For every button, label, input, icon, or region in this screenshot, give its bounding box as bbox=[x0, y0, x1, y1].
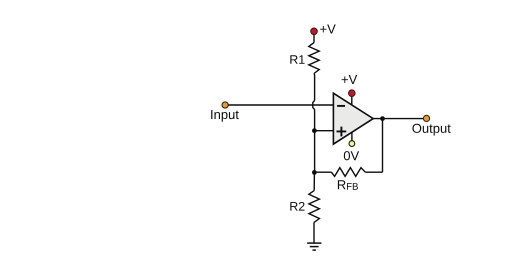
label R2 bbox=[290, 202, 304, 211]
wire: R2 to ground bbox=[313, 223, 315, 243]
resistor R2 bbox=[309, 191, 320, 223]
op-amp inverting input symbol - bbox=[337, 105, 345, 107]
label 0V bbox=[344, 151, 359, 160]
op-amp 0V pin stem bbox=[351, 132, 353, 141]
resistor R1 bbox=[309, 43, 319, 74]
node B junction dot (output) bbox=[380, 116, 385, 121]
label R1 bbox=[290, 55, 304, 64]
wire: crossover down to node A (+ input node) bbox=[314, 110, 316, 173]
label +V (op-amp supply) bbox=[342, 75, 358, 84]
wire: node A to non-inverting input bbox=[314, 130, 333, 132]
label Output bbox=[412, 124, 450, 136]
wire crossover hop (no connection) bbox=[313, 101, 315, 110]
wire: RFB to node A bbox=[314, 171, 331, 173]
node C junction dot (feedback tap) bbox=[312, 170, 317, 175]
ground symbol bbox=[307, 243, 321, 250]
wire: op-amp output to output terminal bbox=[373, 118, 423, 120]
wire: input to inverting input bbox=[228, 104, 333, 106]
wire: +V terminal to R1 top bbox=[313, 35, 315, 43]
wire: output node down to feedback bbox=[382, 119, 384, 173]
wire: R1 bottom down to crossover bbox=[313, 74, 316, 101]
wire: node C down to R2 bbox=[313, 172, 315, 190]
op-amp +V pin stem bbox=[351, 96, 353, 105]
op-amp U1 triangle bbox=[333, 93, 373, 144]
op-amp 0V pin dot bbox=[349, 141, 355, 147]
node A junction dot (+ input) bbox=[312, 128, 317, 133]
wire: feedback right segment bbox=[365, 171, 382, 173]
op-amp non-inverting input symbol + bbox=[337, 127, 347, 137]
power +V terminal dot bbox=[311, 28, 318, 35]
op-amp +V pin dot bbox=[349, 90, 356, 97]
resistor RFB bbox=[331, 168, 365, 177]
label +V (top supply) bbox=[320, 25, 336, 34]
output terminal dot bbox=[423, 115, 429, 121]
label RFB bbox=[338, 180, 358, 189]
input terminal dot bbox=[222, 102, 228, 108]
label Input bbox=[211, 110, 239, 122]
